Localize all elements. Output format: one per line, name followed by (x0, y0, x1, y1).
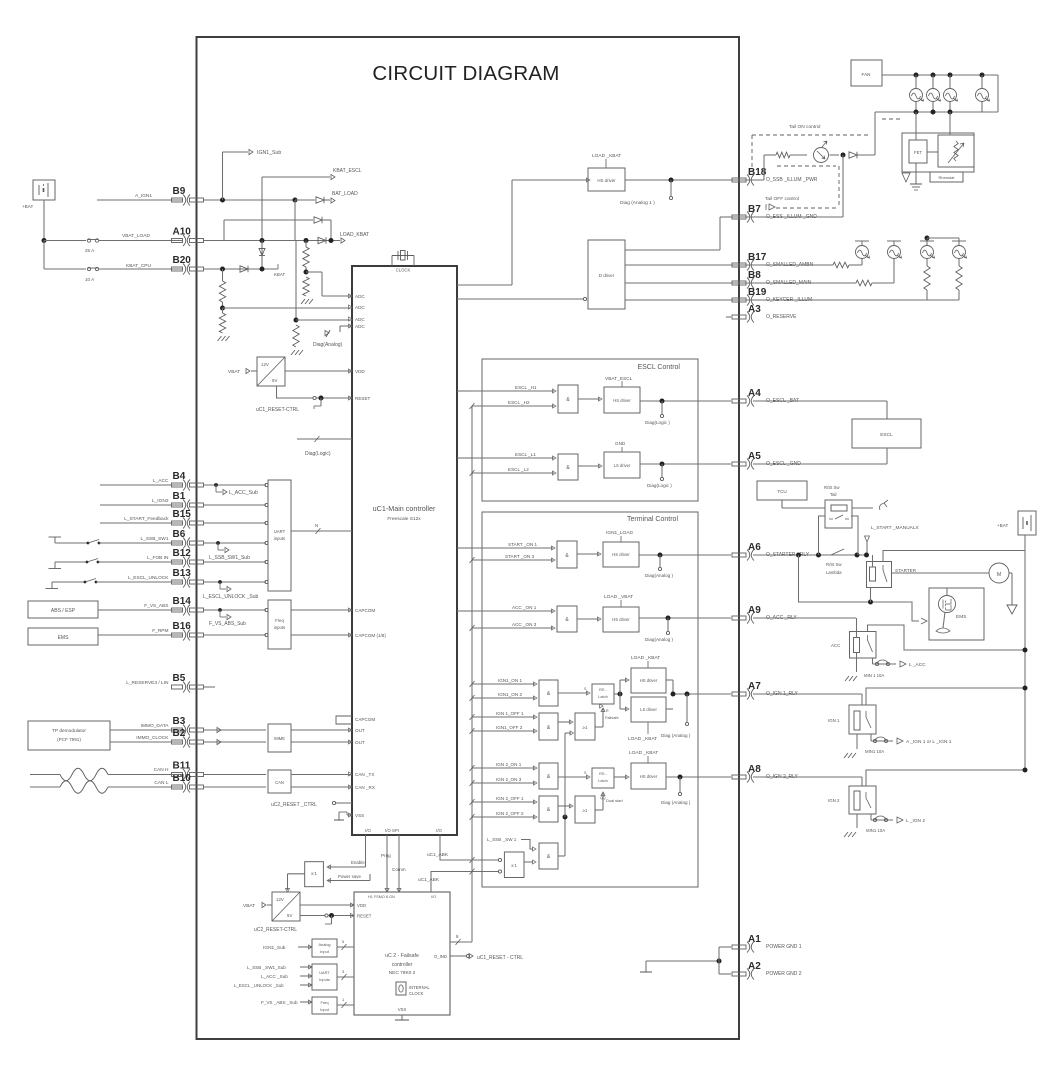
connector B3 (172, 725, 204, 736)
svg-text:Terminal Control: Terminal Control (627, 516, 678, 523)
connector A8 (732, 772, 754, 783)
x1 box terminal (504, 852, 524, 878)
uC1_ABK wire 1 (440, 835, 498, 860)
svg-text:KBAT: KBAT (274, 272, 285, 277)
svg-text:L_SSB _SW 1: L_SSB _SW 1 (487, 837, 517, 842)
UART box output bus to uC1 (291, 530, 352, 532)
KBAT tag (277, 264, 279, 269)
svg-text:START _ON 1: START _ON 1 (508, 542, 538, 547)
latch out split to drivers (614, 693, 620, 695)
diode B20 row (240, 266, 248, 272)
lamp drop x916 (914, 73, 919, 78)
gate to HS acc (577, 618, 599, 620)
wire regulator bottom to RESET (277, 386, 313, 398)
HS start out to A6 (639, 554, 731, 556)
svg-text:B14: B14 (173, 596, 192, 607)
junction B20 x222 (220, 267, 225, 272)
wire uC1 to D driver (457, 298, 583, 300)
lamp drop x950 (948, 73, 953, 78)
wire into UART box y562 (203, 561, 266, 563)
sub tag L_SSB_SW1_Sub (216, 541, 220, 545)
FET ground (915, 163, 917, 184)
box x1 left (305, 862, 324, 887)
svg-text:MIN 1 10A: MIN 1 10A (864, 673, 884, 678)
uC1 pin CAPCOM notch (336, 716, 352, 724)
svg-text:x:1: x:1 (511, 863, 517, 868)
ESCL module box (852, 419, 921, 448)
SSB gate out up (558, 855, 565, 857)
wire D driver to B8 (625, 282, 731, 284)
svg-text:RS -: RS - (599, 687, 607, 692)
svg-text:BAT_LOAD: BAT_LOAD (332, 191, 358, 197)
EMS input arrow (921, 618, 927, 624)
wire to fuse 10A (44, 268, 86, 270)
wire into Freq box y610 (203, 609, 266, 611)
svg-text:LOAD _KBAT: LOAD _KBAT (631, 655, 660, 661)
wire up to IGN1_Sub tag (222, 152, 224, 200)
diode on A10 row (318, 237, 326, 243)
svg-text:(PCF 7991): (PCF 7991) (57, 737, 81, 742)
wire A_IGN1 into B9 (97, 199, 182, 201)
svg-text:L_ACC _Sub: L_ACC _Sub (261, 974, 288, 979)
svg-text:+BAT: +BAT (22, 204, 33, 209)
svg-text:UART: UART (274, 529, 286, 534)
svg-text:Input: Input (320, 1007, 330, 1012)
junction B9 IGN1_Sub (220, 198, 225, 203)
wire x331 to LOAD_KBAT branch (330, 220, 332, 241)
svg-text:N: N (315, 523, 318, 528)
EMS gate feed from A6 (799, 555, 920, 621)
svg-text:IGN 2_ON 3: IGN 2_ON 3 (496, 777, 522, 782)
svg-text:VBAT_LOAD: VBAT_LOAD (122, 233, 150, 239)
svg-text:uC1_ABK: uC1_ABK (418, 877, 440, 883)
LS driver IGN1 (631, 697, 666, 722)
svg-text:VBAT_ESCL: VBAT_ESCL (605, 376, 633, 382)
svg-text:VDD: VDD (355, 369, 365, 374)
svg-text:R/St Sw: R/St Sw (824, 485, 840, 490)
HS driver box B18 (588, 168, 625, 191)
ESCL_L1 wire (472, 457, 554, 459)
svg-text:Tail OFF control: Tail OFF control (765, 196, 799, 202)
Terminal Control outline (482, 512, 698, 887)
svg-text:IMME: IMME (274, 736, 285, 741)
svg-text:MIN1 10A: MIN1 10A (866, 828, 885, 833)
svg-text:M: M (997, 572, 1001, 578)
wire regulator2 VDD to uC2 (300, 904, 354, 906)
EMS mosfet (939, 596, 956, 613)
svg-text:INTERNAL: INTERNAL (409, 985, 430, 990)
svg-text:Diag (Analog ): Diag (Analog ) (661, 800, 691, 805)
svg-text:A8: A8 (748, 764, 761, 775)
svg-text:B16: B16 (173, 621, 192, 632)
connector A3 (732, 312, 754, 323)
bus right vertical (997, 75, 999, 112)
svg-text:A9: A9 (748, 605, 761, 616)
connector A2 (732, 969, 754, 980)
B17 wire (731, 264, 833, 266)
IGN1_ON2 wire (472, 697, 535, 699)
IGN2 AND gate off (539, 796, 558, 822)
relay RSt top (825, 500, 852, 528)
terminal HS driver acc (603, 607, 639, 632)
connector A6 (732, 550, 754, 561)
lamp8 (953, 246, 966, 259)
svg-text:LOAD _KBAT: LOAD _KBAT (629, 750, 658, 756)
Diag IGN1 (686, 694, 688, 722)
svg-text:I/O SPI: I/O SPI (385, 828, 399, 833)
svg-text:HS driver: HS driver (612, 552, 630, 557)
crystal CLOCK (391, 256, 393, 267)
wire uC1 to HS driver B18 (457, 284, 512, 286)
svg-text:L _IGN 2: L _IGN 2 (906, 818, 925, 824)
ground A1A2 (645, 961, 647, 972)
svg-text:CAPCOM: CAPCOM (355, 608, 375, 613)
svg-text:A7: A7 (748, 681, 761, 692)
IGN1 relay top from bus (866, 688, 1025, 705)
lamp5 riser (861, 259, 863, 265)
svg-text:STARTER: STARTER (895, 568, 917, 573)
var resistor box (938, 135, 974, 167)
uC2 internal clock icon (396, 982, 406, 995)
TCU box (757, 481, 807, 500)
wire D driver to B19 (625, 299, 731, 301)
svg-text:Diag (Analog ): Diag (Analog ) (661, 733, 691, 738)
connector B10 (172, 782, 204, 793)
svg-text:B11: B11 (173, 761, 191, 772)
wire into UART box y523 (203, 522, 266, 524)
ESCL HS driver (604, 387, 640, 413)
svg-text:A3: A3 (748, 304, 761, 315)
IGN1 fuse out (870, 734, 872, 741)
svg-text:F_RPM: F_RPM (152, 628, 168, 634)
tail off arrow symbol (766, 204, 775, 210)
A6 junctions (796, 553, 801, 558)
svg-text:R/St Sw: R/St Sw (826, 562, 842, 567)
diode B18 chain (849, 152, 857, 158)
svg-text:KBAT_ESCL: KBAT_ESCL (333, 168, 362, 174)
IGN2_ON3 wire (472, 782, 535, 784)
wire up to bus (874, 112, 876, 155)
lamp5 (856, 246, 869, 259)
svg-text:≥1: ≥1 (583, 808, 588, 813)
uC1_ABK wire 2 from uC2 (431, 872, 498, 893)
svg-text:F_VS_ABS: F_VS_ABS (144, 603, 168, 609)
svg-text:B13: B13 (173, 568, 192, 579)
regulator 12V/5V (257, 357, 285, 386)
FET inner box (909, 140, 927, 163)
wire into UART box y582 (203, 581, 266, 583)
svg-text:CLOCK: CLOCK (396, 268, 411, 273)
connector B16 (172, 630, 204, 641)
STARTER relay box (867, 562, 892, 588)
svg-text:HS driver: HS driver (612, 617, 630, 622)
svg-text:Dual start: Dual start (606, 798, 624, 803)
node KBAT_ESCL (262, 176, 330, 178)
svg-text:ACC: ACC (831, 643, 840, 648)
IGN2_OFF1 wire (472, 801, 535, 803)
motor to ground arrow (1009, 572, 1012, 574)
dashed frame inner (777, 165, 836, 167)
svg-text:L _ACC: L _ACC (909, 662, 926, 668)
connector B15 (172, 518, 204, 529)
svg-text:B9: B9 (173, 186, 186, 197)
box UART Inputs2 (312, 964, 337, 990)
svg-text:+BAT: +BAT (997, 523, 1008, 528)
wire ADC row y320 (296, 319, 352, 321)
lamp6 riser (893, 259, 895, 283)
svg-text:Failsafe: Failsafe (605, 715, 619, 720)
svg-text:L_ACC_Sub: L_ACC_Sub (229, 490, 258, 496)
svg-text:L_FOB IN: L_FOB IN (147, 555, 169, 561)
VSS ground uC1 (347, 814, 352, 816)
IGN2 on gate to latch (558, 776, 588, 778)
LS driver out to A5 (640, 463, 731, 465)
wire D driver to B17 (625, 264, 731, 266)
wire into Freq box y635 (203, 634, 266, 636)
Diag Logic A4 (661, 401, 663, 414)
svg-text:MIN1 10A: MIN1 10A (865, 749, 884, 754)
svg-text:B17: B17 (748, 252, 767, 263)
A5 wire to ESCL module (753, 463, 887, 465)
lamp drop x982 (980, 73, 985, 78)
EMS mosfet drain up (946, 588, 948, 596)
svg-text:ADC: ADC (355, 317, 365, 322)
I/O wire to x1 box Enable (365, 835, 367, 867)
svg-text:Prog: Prog (381, 853, 391, 858)
svg-text:TP demodulator: TP demodulator (52, 728, 86, 734)
lamp3 (944, 89, 957, 102)
svg-text:START _ON 3: START _ON 3 (505, 554, 535, 559)
svg-text:Diag(Analog ): Diag(Analog ) (645, 573, 674, 578)
svg-text:OUT: OUT (355, 728, 365, 733)
svg-text:5V: 5V (272, 378, 277, 383)
B5 stub (203, 686, 215, 688)
svg-text:VSS: VSS (355, 813, 364, 818)
lamp6 (888, 246, 901, 259)
IGN1 OFF gate to OR (558, 721, 571, 723)
connector A9 (732, 613, 754, 624)
svg-text:OUT: OUT (355, 740, 365, 745)
motor M (989, 563, 1009, 583)
svg-text:B12: B12 (173, 548, 192, 559)
wire B9 row (203, 199, 295, 201)
connector A4 (732, 396, 754, 407)
svg-text:≥1: ≥1 (583, 725, 588, 730)
resistor chain x296 from B9 (294, 200, 296, 240)
svg-text:HS driver: HS driver (640, 678, 658, 683)
terminal AND gate start (557, 541, 577, 568)
IGN2_OFF2 wire (472, 816, 535, 818)
svg-text:B20: B20 (173, 255, 192, 266)
A8 wire (753, 776, 862, 778)
svg-text:LOAD _VBAT: LOAD _VBAT (604, 594, 633, 600)
L_ACC arrow out (900, 661, 906, 667)
ESCL AND gate 2 (558, 454, 578, 480)
svg-text:ACC _ON 1: ACC _ON 1 (512, 605, 537, 610)
IGN1_ON1 wire (472, 683, 535, 685)
IGN1 relay box (849, 705, 876, 734)
svg-text:B4: B4 (173, 471, 186, 482)
FET outer box (902, 133, 974, 172)
svg-text:B7: B7 (748, 204, 761, 215)
svg-text:Diag(Analog ): Diag(Analog ) (645, 637, 674, 642)
svg-text:Diag(Logic ): Diag(Logic ) (647, 483, 672, 488)
IGN2_ON1 wire (472, 767, 535, 769)
ACC switch top to bus (868, 625, 1026, 650)
svg-text:Power save: Power save (338, 874, 361, 879)
svg-text:IGN1_Sub: IGN1_Sub (263, 945, 286, 951)
HS acc out to A9 (639, 617, 731, 619)
starter coil stub from A6 (872, 555, 874, 567)
IGN2 AND gate on (539, 763, 558, 789)
relay top coil wire right (852, 507, 873, 509)
A3 stub (726, 316, 731, 318)
svg-text:Freq: Freq (321, 1000, 329, 1005)
svg-text:H1 FSMO 8 GN: H1 FSMO 8 GN (368, 895, 395, 899)
junction B18 chain (841, 153, 846, 158)
svg-text:B5: B5 (173, 673, 186, 684)
svg-text:ESCL: ESCL (880, 432, 893, 438)
svg-text:NEC 78K0 2: NEC 78K0 2 (389, 970, 416, 976)
connector B7 (732, 212, 754, 223)
B19 wire (731, 299, 959, 301)
CAN wires (203, 774, 266, 776)
lamp bus bottom (915, 102, 917, 113)
svg-text:VBAT: VBAT (243, 903, 255, 909)
svg-text:Diag(Logic ): Diag(Logic ) (645, 420, 670, 425)
svg-text:L_ACC: L_ACC (153, 478, 169, 484)
svg-text:IGN1_Sub: IGN1_Sub (257, 150, 281, 156)
Lambda switch on A6 line (831, 549, 844, 555)
svg-text:KBAT_CPU: KBAT_CPU (126, 263, 152, 269)
box IMME (268, 724, 291, 752)
svg-text:Diag(Analog): Diag(Analog) (313, 342, 343, 348)
connector B9 (172, 195, 204, 206)
svg-text:L_IGN2: L_IGN2 (152, 498, 169, 504)
IGN1 OR gate (575, 713, 595, 740)
svg-text:CAPCOM (1/8): CAPCOM (1/8) (355, 633, 386, 638)
svg-text:Rheostat: Rheostat (938, 175, 955, 180)
uC2 8-bit bus to main bus (450, 941, 472, 943)
svg-text:RS -: RS - (599, 771, 607, 776)
ACC fuse (873, 663, 897, 665)
svg-text:IGN 1: IGN 1 (828, 718, 840, 723)
latch2 to driver (614, 776, 627, 778)
svg-text:inputs: inputs (274, 536, 285, 541)
diode BAT_LOAD (316, 197, 324, 203)
connector B17 (732, 260, 754, 271)
triangle indicator (902, 173, 910, 182)
svg-text:EMS: EMS (956, 614, 966, 620)
svg-text:B1: B1 (173, 491, 186, 502)
starter switch top to bus (883, 551, 1025, 562)
connector B2 (172, 737, 204, 748)
connector B13 (172, 577, 204, 588)
connector B4 (172, 480, 204, 491)
switch at B13 (46, 588, 59, 590)
battery left +BAT (33, 180, 55, 200)
svg-text:ESCL _L1: ESCL _L1 (515, 452, 536, 457)
svg-text:inputs: inputs (274, 625, 285, 630)
svg-text:O_SSB _ILLUM _PWR: O_SSB _ILLUM _PWR (766, 177, 818, 183)
ESCL_H1 wire (457, 390, 554, 392)
svg-text:UART: UART (319, 970, 330, 975)
gate2 to LS driver (578, 465, 600, 467)
svg-text:L_ESCL_UNLOCK _Sub: L_ESCL_UNLOCK _Sub (203, 594, 259, 600)
vertical joining OR gates (564, 733, 566, 817)
svg-text:Tail ON control: Tail ON control (789, 124, 820, 130)
svg-text:5V: 5V (287, 913, 292, 918)
svg-text:ESCL _H2: ESCL _H2 (508, 400, 530, 405)
svg-text:HS driver: HS driver (597, 178, 616, 183)
svg-text:B6: B6 (173, 529, 186, 540)
svg-text:12V: 12V (276, 897, 284, 902)
resistor chain x306 from A10 (305, 241, 307, 248)
ESCL_L2 wire (472, 472, 554, 474)
elbow into OR1 second input (565, 732, 571, 734)
svg-text:LOAD _KBAT: LOAD _KBAT (592, 153, 621, 159)
svg-text:VBAT: VBAT (228, 369, 240, 375)
connector B20 (172, 264, 204, 275)
box TP demodulator (28, 721, 110, 750)
ACC_ON3 wire (472, 627, 553, 629)
svg-text:ESCL _L2: ESCL _L2 (508, 467, 529, 472)
svg-text:Freq: Freq (275, 618, 284, 623)
box UART inputs (268, 480, 291, 591)
junction A10 x331 (329, 238, 334, 243)
svg-text:HS driver: HS driver (613, 398, 631, 403)
svg-text:L_SSB_SW1: L_SSB_SW1 (141, 536, 169, 542)
IGN1 ON gate to latch (558, 692, 588, 694)
sub tag F_VS_ABS_Sub (218, 608, 222, 612)
IGN1 AND gate off (539, 713, 558, 740)
box Analog Input (312, 939, 337, 957)
svg-text:uC1_RESET-CTRL: uC1_RESET-CTRL (256, 407, 299, 413)
lamp7 (921, 246, 934, 259)
svg-text:ESCL _H1: ESCL _H1 (515, 385, 537, 390)
wire B15 external (100, 522, 182, 524)
connector A1 (732, 942, 754, 953)
junction B20 x262 (260, 267, 265, 272)
wire into UART box y543 (203, 542, 266, 544)
battery right (1018, 511, 1036, 535)
drivers out to A7 (666, 679, 673, 681)
connector B19 (732, 295, 754, 306)
svg-text:A10: A10 (173, 227, 192, 238)
svg-text:CAN _TX: CAN _TX (355, 772, 374, 777)
RS latch IGN2 (592, 768, 614, 788)
FET wires (915, 112, 917, 140)
svg-text:ABS / ESP: ABS / ESP (51, 608, 76, 614)
wire row y220 with diode (224, 219, 313, 221)
IGN1 coil ground (856, 734, 858, 749)
ESCL_H2 wire (472, 405, 554, 407)
ground x222 (218, 336, 222, 341)
IGN2 OR gate (575, 796, 595, 823)
svg-text:VSS: VSS (398, 1007, 407, 1012)
uC1 main controller box (352, 266, 457, 835)
svg-text:Latch: Latch (598, 778, 608, 783)
ESCL Control outline (482, 359, 698, 501)
switch at B6 (49, 536, 62, 538)
svg-text:CAN _RX: CAN _RX (355, 785, 375, 790)
svg-text:POWER GND 1: POWER GND 1 (766, 944, 802, 950)
lamp1 (910, 89, 923, 102)
OR to latch R (595, 726, 603, 728)
svg-text:L_SSB_SW1_Sub: L_SSB_SW1_Sub (209, 555, 250, 561)
gate1 to driver (578, 398, 600, 400)
uC1 right pins to bus (457, 390, 472, 392)
